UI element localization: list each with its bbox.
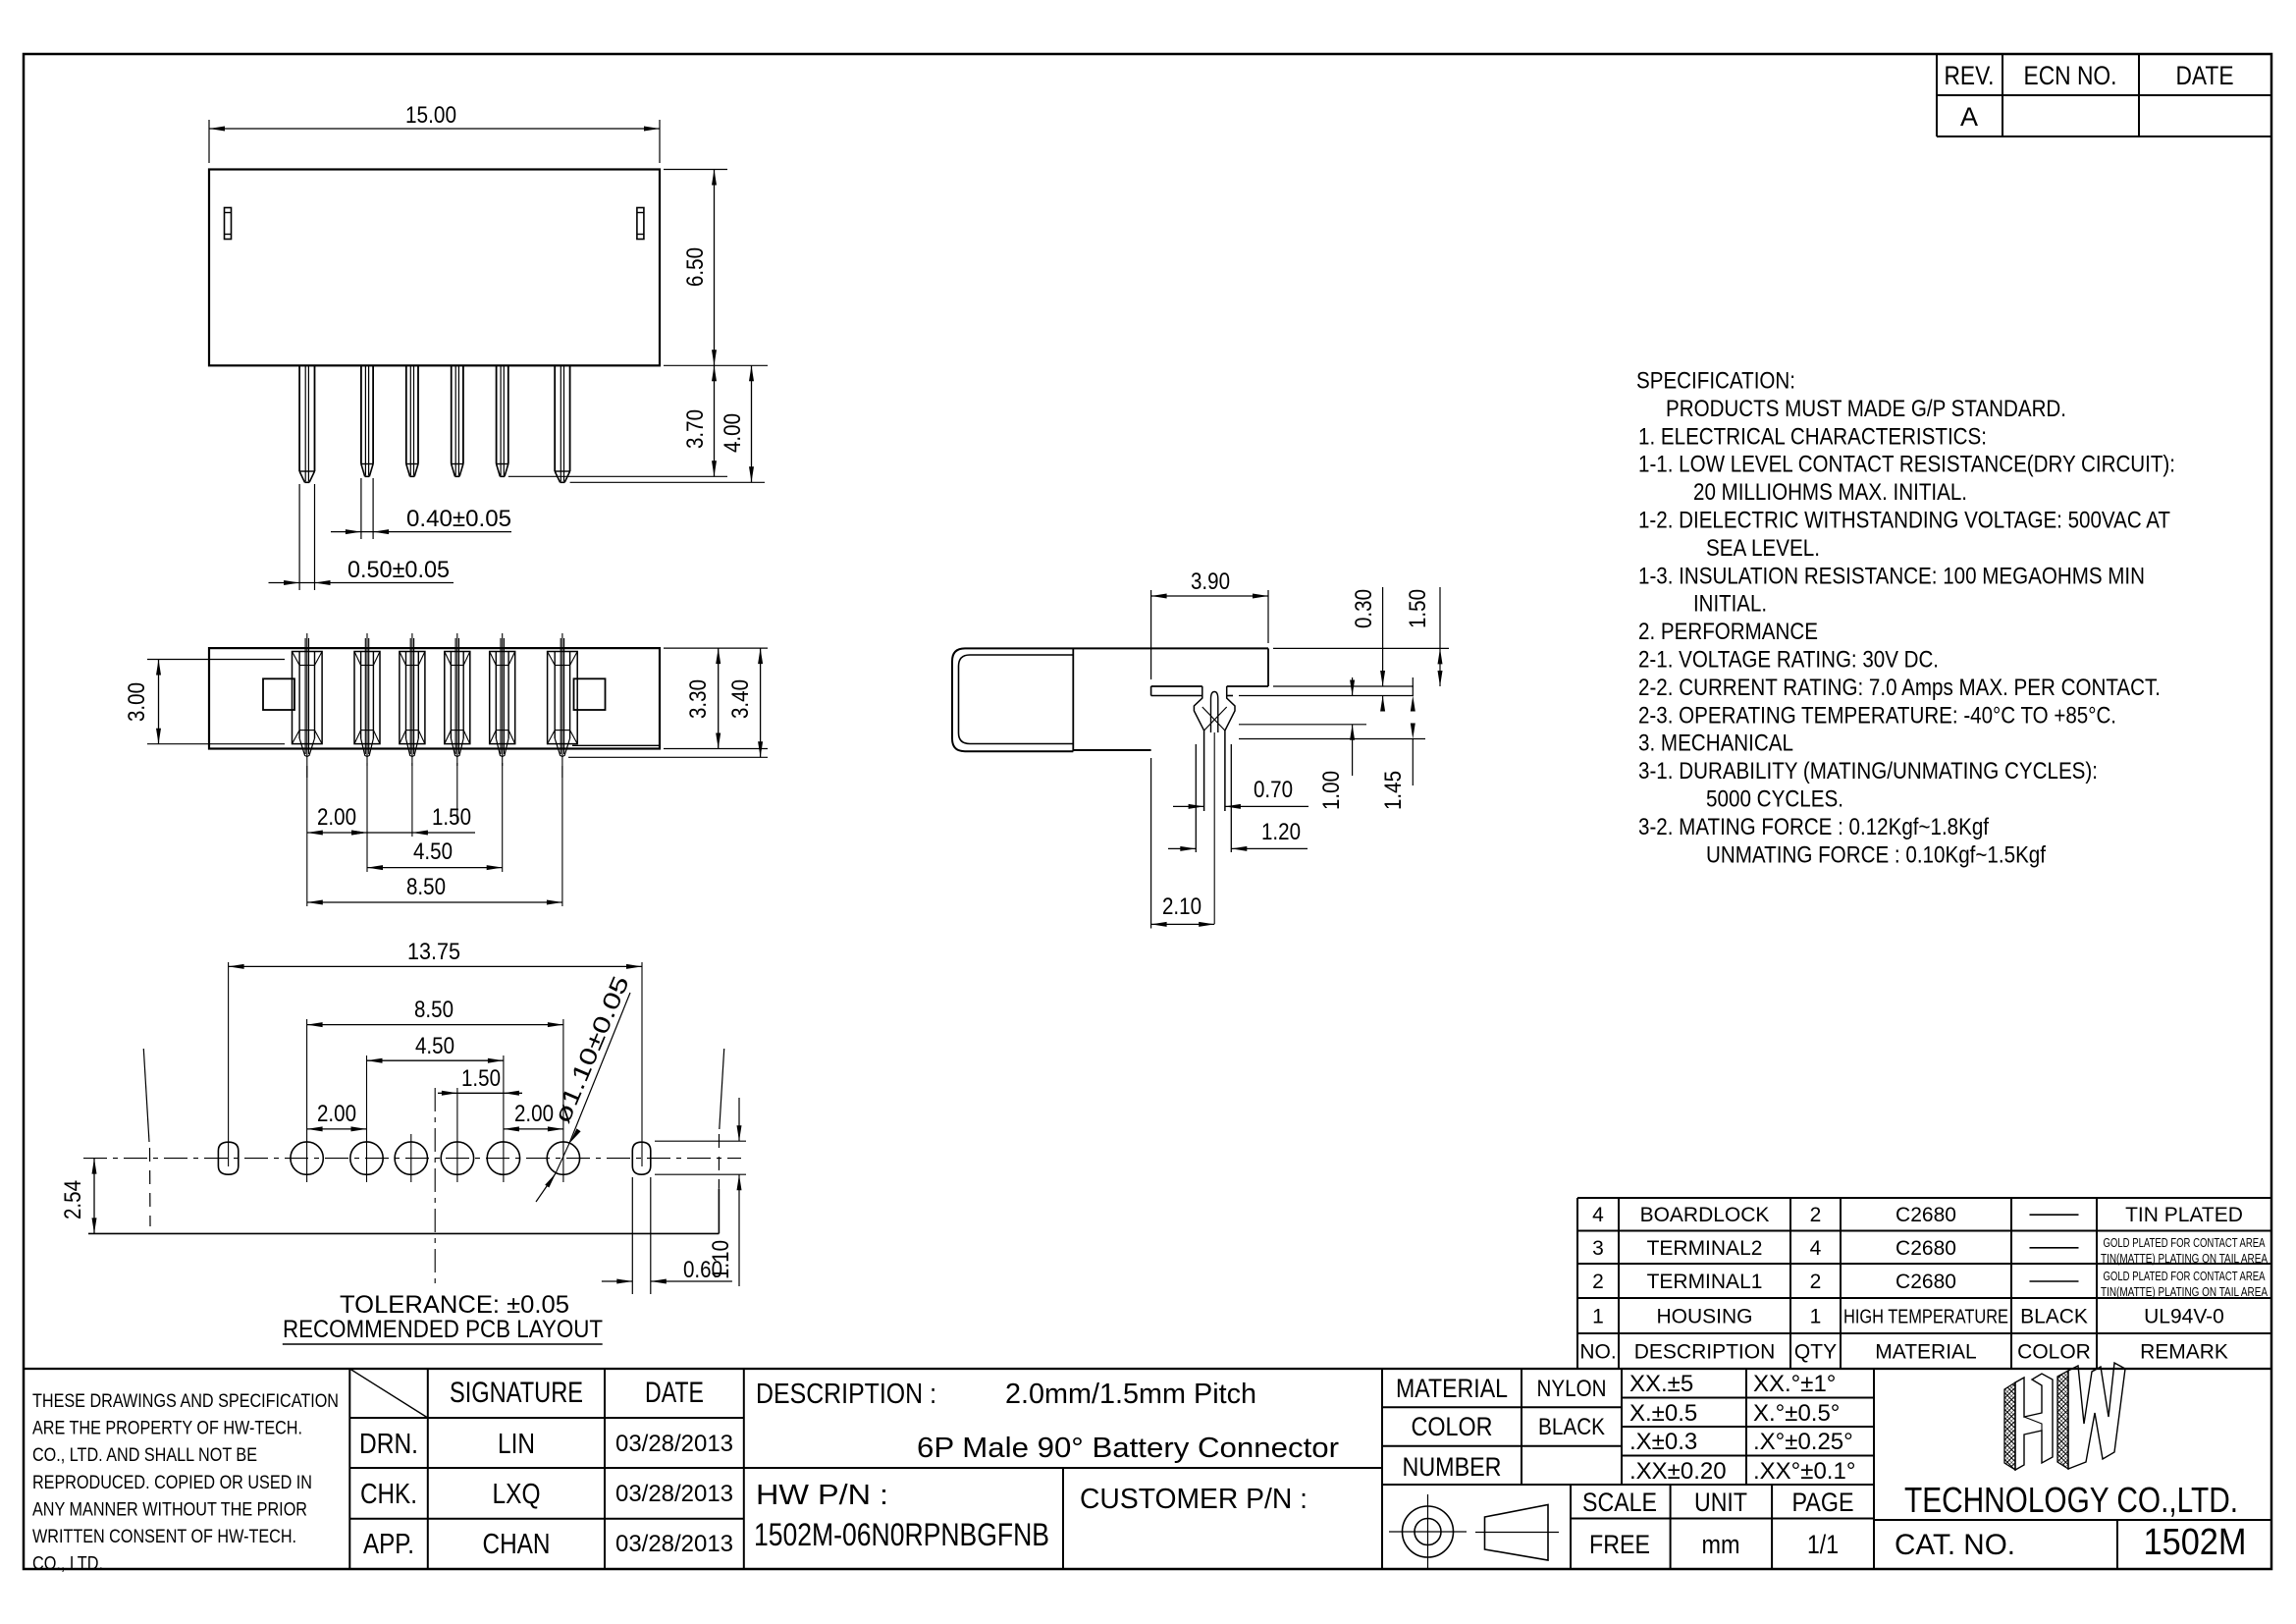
svg-text:2-1. VOLTAGE RATING: 30V DC.: 2-1. VOLTAGE RATING: 30V DC. — [1638, 647, 1939, 674]
pcb layout: hole 2 — [350, 1142, 383, 1174]
svg-text:C2680: C2680 — [1896, 1271, 1956, 1293]
svg-text:3-1. DURABILITY (MATING/UNMATI: 3-1. DURABILITY (MATING/UNMATING CYCLES)… — [1638, 758, 2098, 785]
pcb layout: left projection line — [143, 1049, 150, 1226]
svg-text:GOLD PLATED FOR CONTACT AREA: GOLD PLATED FOR CONTACT AREA — [2104, 1270, 2267, 1283]
svg-text:HIGH TEMPERATURE: HIGH TEMPERATURE — [1843, 1307, 2008, 1328]
svg-text:2.00: 2.00 — [317, 804, 356, 831]
svg-text:TIN PLATED: TIN PLATED — [2125, 1204, 2243, 1226]
pcb layout: horizontal centerline — [83, 1158, 741, 1160]
company logo HW (3D) — [2004, 1363, 2125, 1470]
svg-text:3.70: 3.70 — [682, 409, 709, 449]
dimension 3.00 — [124, 660, 285, 744]
top view: right slot — [637, 208, 644, 240]
svg-text:3.90: 3.90 — [1191, 568, 1230, 595]
svg-text:4.00: 4.00 — [720, 413, 746, 453]
svg-text:0.50±0.05: 0.50±0.05 — [347, 557, 450, 583]
svg-text:CO., LTD. AND SHALL NOT BE: CO., LTD. AND SHALL NOT BE — [32, 1444, 257, 1466]
svg-text:1-3. INSULATION RESISTANCE: 10: 1-3. INSULATION RESISTANCE: 100 MEGAOHMS… — [1638, 563, 2145, 589]
svg-text:2: 2 — [1592, 1271, 1604, 1293]
svg-text:2-3. OPERATING TEMPERATURE: -4: 2-3. OPERATING TEMPERATURE: -40°C TO +85… — [1638, 702, 2116, 729]
svg-text:1502M-06N0RPNBGFNB: 1502M-06N0RPNBGFNB — [754, 1517, 1049, 1552]
svg-text:SIGNATURE: SIGNATURE — [450, 1377, 583, 1409]
svg-text:TIN(MATTE) PLATING ON TAIL ARE: TIN(MATTE) PLATING ON TAIL AREA — [2101, 1252, 2269, 1266]
dimension 8.50 (bottom view) — [307, 874, 562, 905]
dimension 4.50 (pcb) — [367, 1033, 504, 1063]
note RECOMMENDED PCB LAYOUT (underlined) — [283, 1316, 603, 1344]
dimension 2.00 left (pcb) — [307, 1101, 367, 1131]
svg-text:2.00: 2.00 — [514, 1101, 554, 1127]
svg-text:UNIT: UNIT — [1694, 1488, 1747, 1517]
svg-text:CUSTOMER P/N :: CUSTOMER P/N : — [1080, 1484, 1308, 1515]
dimension 4.50 (bottom view) — [367, 839, 503, 870]
svg-text:2. PERFORMANCE: 2. PERFORMANCE — [1638, 619, 1818, 645]
svg-text:2.0mm/1.5mm Pitch: 2.0mm/1.5mm Pitch — [1005, 1379, 1256, 1410]
svg-text:BOARDLOCK: BOARDLOCK — [1640, 1204, 1770, 1226]
svg-text:.X±0.3: .X±0.3 — [1629, 1429, 1697, 1455]
svg-text:3.40: 3.40 — [727, 679, 754, 719]
dimension 13.75 — [229, 939, 642, 969]
svg-text:FREE: FREE — [1589, 1530, 1650, 1559]
dimension 0.50±0.05 — [269, 484, 454, 590]
svg-text:BLACK: BLACK — [1538, 1414, 1605, 1440]
dimension 0.40±0.05 — [331, 478, 511, 539]
svg-text:MATERIAL: MATERIAL — [1396, 1374, 1508, 1403]
svg-text:CHAN: CHAN — [483, 1529, 551, 1560]
svg-text:13.75: 13.75 — [407, 939, 460, 965]
bottom view: pin 1 cavity and pin — [293, 633, 323, 778]
svg-text:DATE: DATE — [645, 1377, 704, 1409]
title block: CAT. NO. row — [1895, 1520, 2247, 1569]
svg-text:GOLD PLATED FOR CONTACT AREA: GOLD PLATED FOR CONTACT AREA — [2104, 1236, 2267, 1250]
pcb layout: hole 3 — [395, 1142, 427, 1174]
title block grid — [24, 1369, 2271, 1569]
section view: shell outline — [952, 648, 1268, 751]
svg-text:4.50: 4.50 — [415, 1033, 454, 1059]
pin center extension lines below bottom view — [307, 763, 562, 906]
svg-text:X.±0.5: X.±0.5 — [1629, 1400, 1697, 1427]
bottom view: left ear — [263, 678, 294, 710]
dimension 1.10 — [655, 1098, 746, 1286]
svg-text:6P Male 90° Battery Connector: 6P Male 90° Battery Connector — [917, 1433, 1339, 1464]
svg-text:2.54: 2.54 — [60, 1180, 86, 1219]
svg-text:CAT. NO.: CAT. NO. — [1895, 1529, 2015, 1561]
svg-text:NUMBER: NUMBER — [1403, 1452, 1502, 1482]
svg-text:.X°±0.25°: .X°±0.25° — [1753, 1429, 1853, 1455]
dimension 3.90 — [1151, 568, 1268, 679]
svg-text:DESCRIPTION: DESCRIPTION — [1634, 1341, 1776, 1364]
pcb layout: hole 4 — [441, 1142, 473, 1174]
svg-text:15.00: 15.00 — [405, 102, 456, 129]
title block: description text — [756, 1379, 1339, 1464]
svg-text:1. ELECTRICAL CHARACTERISTICS:: 1. ELECTRICAL CHARACTERISTICS: — [1638, 423, 1987, 450]
svg-text:LIN: LIN — [498, 1429, 535, 1460]
dimension 0.60 — [602, 1177, 732, 1294]
svg-text:0.30: 0.30 — [1351, 589, 1377, 628]
svg-text:TOLERANCE: ±0.05: TOLERANCE: ±0.05 — [340, 1291, 569, 1319]
dimension 1.00 — [1239, 677, 1366, 810]
svg-text:REV.: REV. — [1945, 61, 1995, 90]
svg-text:TECHNOLOGY CO.,LTD.: TECHNOLOGY CO.,LTD. — [1904, 1480, 2238, 1520]
svg-text:1.20: 1.20 — [1261, 819, 1301, 845]
title block: signature/date header — [450, 1377, 704, 1409]
dimension 0.70 — [1173, 777, 1308, 809]
title block: scale/unit/page — [1571, 1485, 1874, 1569]
dimension 3.30 — [664, 648, 768, 748]
dimension 1.50 (section) — [1273, 587, 1449, 686]
title block: tolerance table — [1622, 1369, 1874, 1569]
svg-text:mm: mm — [1702, 1530, 1740, 1559]
pcb layout: vertical center axis — [434, 1088, 436, 1288]
pcb layout: right projection line — [719, 1049, 723, 1189]
svg-text:C2680: C2680 — [1896, 1237, 1956, 1260]
svg-text:1502M: 1502M — [2144, 1522, 2247, 1563]
bottom view: right ear — [574, 678, 606, 710]
svg-text:TERMINAL1: TERMINAL1 — [1647, 1271, 1763, 1293]
dimension 15.00 — [209, 102, 660, 163]
bottom view: pin 4 cavity and pin — [445, 633, 470, 766]
pcb layout: right slot hole — [632, 1142, 651, 1174]
svg-text:5000 CYCLES.: 5000 CYCLES. — [1706, 786, 1843, 813]
svg-text:1.00: 1.00 — [1318, 771, 1345, 810]
svg-text:1.50: 1.50 — [1405, 589, 1431, 628]
svg-text:WRITTEN CONSENT OF HW-TECH.: WRITTEN CONSENT OF HW-TECH. — [32, 1526, 296, 1547]
revision table REV/ECN NO./DATE — [1937, 54, 2271, 136]
svg-text:XX.±5: XX.±5 — [1629, 1371, 1693, 1397]
pcb layout: hole 6 — [547, 1142, 579, 1174]
bottom view: pin 2 cavity and pin — [354, 633, 380, 766]
svg-text:QTY: QTY — [1794, 1341, 1837, 1364]
title block: material/color/number cells — [1382, 1369, 1622, 1485]
svg-text:1.50: 1.50 — [432, 804, 471, 831]
dimension 1.20 — [1168, 819, 1308, 851]
top view: pin 3 — [406, 365, 418, 476]
svg-text:1: 1 — [1810, 1306, 1822, 1328]
svg-text:3. MECHANICAL: 3. MECHANICAL — [1638, 731, 1793, 757]
svg-text:NYLON: NYLON — [1537, 1376, 1607, 1402]
svg-text:2.10: 2.10 — [1162, 893, 1201, 920]
svg-text:REMARK: REMARK — [2140, 1341, 2228, 1364]
svg-text:UNMATING FORCE : 0.10Kgf~1.5Kg: UNMATING FORCE : 0.10Kgf~1.5Kgf — [1706, 841, 2046, 868]
svg-text:TIN(MATTE) PLATING ON TAIL ARE: TIN(MATTE) PLATING ON TAIL AREA — [2101, 1285, 2269, 1299]
svg-text:CO., LTD.: CO., LTD. — [32, 1553, 103, 1575]
bottom view: pin 3 cavity and pin — [400, 633, 425, 766]
svg-text:CHK.: CHK. — [360, 1479, 417, 1510]
svg-text:3: 3 — [1592, 1237, 1604, 1260]
note TOLERANCE: ±0.05 — [340, 1291, 569, 1319]
svg-text:1/1: 1/1 — [1807, 1530, 1839, 1559]
svg-text:.XX°±0.1°: .XX°±0.1° — [1753, 1458, 1855, 1485]
svg-text:1.50: 1.50 — [461, 1065, 501, 1092]
dimension 2.00 (bottom view) — [307, 804, 367, 836]
svg-text:1-1. LOW LEVEL CONTACT RESISTA: 1-1. LOW LEVEL CONTACT RESISTANCE(DRY CI… — [1638, 452, 2175, 478]
BOM table rows text — [1579, 1204, 2268, 1363]
svg-text:ARE THE PROPERTY OF HW-TECH.: ARE THE PROPERTY OF HW-TECH. — [32, 1418, 302, 1439]
dimension 2.10 — [1151, 758, 1215, 929]
svg-text:INITIAL.: INITIAL. — [1693, 591, 1767, 618]
svg-text:X.°±0.5°: X.°±0.5° — [1753, 1400, 1840, 1427]
svg-text:6.50: 6.50 — [682, 247, 709, 287]
svg-text:0.60: 0.60 — [683, 1257, 722, 1283]
svg-text:4.50: 4.50 — [413, 839, 453, 865]
pcb layout: hole 5 — [487, 1142, 519, 1174]
title block: APP row — [363, 1529, 733, 1560]
svg-text:NO.: NO. — [1579, 1341, 1616, 1364]
dimension 3.70 — [508, 365, 727, 476]
svg-text:0.70: 0.70 — [1254, 777, 1293, 803]
svg-text:COLOR: COLOR — [2017, 1341, 2091, 1364]
dimension Ø1.10±0.05 leader — [536, 972, 635, 1202]
bottom view: pin 6 cavity and pin — [548, 633, 578, 778]
svg-text:2-2. CURRENT RATING: 7.0 Amps: 2-2. CURRENT RATING: 7.0 Amps MAX. PER C… — [1638, 675, 2161, 701]
company name TECHNOLOGY CO.,LTD. — [1874, 1480, 2271, 1520]
top view: pin 5 — [497, 365, 508, 476]
svg-text:HW P/N :: HW P/N : — [756, 1480, 888, 1511]
svg-text:TERMINAL2: TERMINAL2 — [1647, 1237, 1763, 1260]
top view: pin 4 — [452, 365, 463, 476]
svg-text:03/28/2013: 03/28/2013 — [615, 1481, 733, 1507]
dimension 1.45 — [1239, 677, 1425, 810]
svg-text:03/28/2013: 03/28/2013 — [615, 1431, 733, 1457]
svg-text:SEA LEVEL.: SEA LEVEL. — [1706, 535, 1820, 562]
svg-text:3-2. MATING FORCE : 0.12Kgf~1.: 3-2. MATING FORCE : 0.12Kgf~1.8Kgf — [1638, 814, 1989, 840]
svg-text:1-2. DIELECTRIC WITHSTANDING V: 1-2. DIELECTRIC WITHSTANDING VOLTAGE: 50… — [1638, 508, 2170, 534]
dimension 6.50 — [664, 170, 768, 366]
svg-text:SCALE: SCALE — [1582, 1488, 1657, 1517]
section view: boardlock latch — [1194, 686, 1235, 924]
dimension 4.00 — [570, 365, 765, 482]
svg-text:0.40±0.05: 0.40±0.05 — [406, 506, 511, 532]
svg-text:SPECIFICATION:: SPECIFICATION: — [1636, 368, 1795, 395]
svg-text:BLACK: BLACK — [2020, 1306, 2088, 1328]
svg-text:4: 4 — [1592, 1204, 1604, 1226]
svg-text:8.50: 8.50 — [406, 874, 446, 900]
svg-text:APP.: APP. — [363, 1529, 414, 1560]
top view: pin 2 — [361, 365, 373, 476]
dimension 1.50 (bottom view) — [351, 804, 475, 836]
pcb layout: left slot hole — [218, 1142, 238, 1174]
BOM table grid — [1577, 1198, 2271, 1369]
title block: projection symbol cone — [1475, 1505, 1559, 1561]
bottom view: pin 5 cavity and pin — [490, 633, 515, 766]
svg-text:LXQ: LXQ — [493, 1479, 541, 1510]
svg-text:DESCRIPTION :: DESCRIPTION : — [756, 1379, 936, 1410]
svg-text:03/28/2013: 03/28/2013 — [615, 1531, 733, 1557]
top view: connector body — [209, 170, 660, 366]
svg-text:2: 2 — [1810, 1271, 1822, 1293]
pcb layout: hole center ticks and extension lines — [229, 962, 642, 1182]
dimension 8.50 (pcb) — [307, 997, 563, 1027]
svg-text:DATE: DATE — [2176, 61, 2234, 90]
svg-text:DRN.: DRN. — [359, 1429, 418, 1460]
title block: CUSTOMER P/N — [1080, 1484, 1308, 1515]
svg-text:1: 1 — [1592, 1306, 1604, 1328]
svg-text:A: A — [1960, 102, 1978, 132]
svg-text:1.45: 1.45 — [1380, 771, 1407, 810]
specification text block — [1636, 368, 2175, 869]
bottom view: connector body — [209, 648, 660, 748]
title block: DRN row — [359, 1429, 733, 1460]
svg-text:2.00: 2.00 — [317, 1101, 356, 1127]
svg-text:PRODUCTS MUST MADE G/P STANDAR: PRODUCTS MUST MADE G/P STANDARD. — [1666, 396, 2066, 422]
top view: pin 6 — [555, 365, 569, 482]
svg-text:ANY MANNER WITHOUT THE PRIOR: ANY MANNER WITHOUT THE PRIOR — [32, 1498, 307, 1520]
svg-text:C2680: C2680 — [1896, 1204, 1956, 1226]
svg-text:HOUSING: HOUSING — [1656, 1306, 1752, 1328]
svg-text:REPRODUCED. COPIED OR USED IN: REPRODUCED. COPIED OR USED IN — [32, 1472, 312, 1493]
svg-text:2: 2 — [1810, 1204, 1822, 1226]
svg-text:PAGE: PAGE — [1792, 1488, 1854, 1517]
pcb layout: hole 1 — [291, 1142, 323, 1174]
title block: CHK row — [360, 1479, 733, 1510]
svg-text:ECN NO.: ECN NO. — [2024, 61, 2117, 90]
svg-text:3.30: 3.30 — [685, 679, 712, 719]
dimension 2.54 — [60, 1159, 97, 1234]
svg-text:8.50: 8.50 — [414, 997, 454, 1023]
title block: property note — [32, 1390, 339, 1575]
svg-text:20 MILLIOHMS MAX. INITIAL.: 20 MILLIOHMS MAX. INITIAL. — [1693, 479, 1967, 506]
svg-text:RECOMMENDED PCB LAYOUT: RECOMMENDED PCB LAYOUT — [283, 1316, 603, 1343]
dimension 1.50 (pcb) — [438, 1065, 522, 1096]
svg-text:COLOR: COLOR — [1412, 1412, 1493, 1441]
top view: pin 1 — [299, 365, 314, 482]
top view: left slot — [225, 208, 232, 240]
svg-text:4: 4 — [1810, 1237, 1822, 1260]
svg-text:XX.°±1°: XX.°±1° — [1753, 1371, 1836, 1397]
dimension 2.00 right (pcb) — [504, 1101, 563, 1131]
svg-text:3.00: 3.00 — [124, 682, 150, 722]
svg-text:.XX±0.20: .XX±0.20 — [1629, 1458, 1727, 1485]
pcb layout: board edge — [88, 1189, 719, 1234]
svg-text:MATERIAL: MATERIAL — [1875, 1341, 1976, 1364]
title block: projection symbol circle — [1389, 1494, 1467, 1569]
dimension 3.40 — [568, 648, 768, 757]
svg-text:THESE DRAWINGS AND SPECIFICATI: THESE DRAWINGS AND SPECIFICATION — [32, 1390, 339, 1412]
title block: HW P/N — [754, 1480, 1049, 1552]
dimension 0.30 — [1239, 587, 1414, 712]
svg-text:UL94V-0: UL94V-0 — [2144, 1306, 2224, 1328]
